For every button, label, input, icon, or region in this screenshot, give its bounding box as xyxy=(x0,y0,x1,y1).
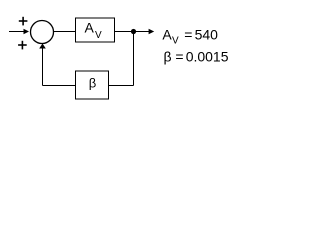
svg-text:β: β xyxy=(89,76,96,91)
svg-text:=: = xyxy=(175,49,183,65)
svg-text:A: A xyxy=(162,26,172,42)
svg-text:β: β xyxy=(164,49,172,65)
svg-text:V: V xyxy=(172,35,179,46)
svg-text:0.0015: 0.0015 xyxy=(186,49,229,65)
svg-text:A: A xyxy=(85,20,95,36)
svg-text:V: V xyxy=(95,30,102,41)
svg-text:=: = xyxy=(184,26,192,42)
svg-text:540: 540 xyxy=(195,26,219,42)
